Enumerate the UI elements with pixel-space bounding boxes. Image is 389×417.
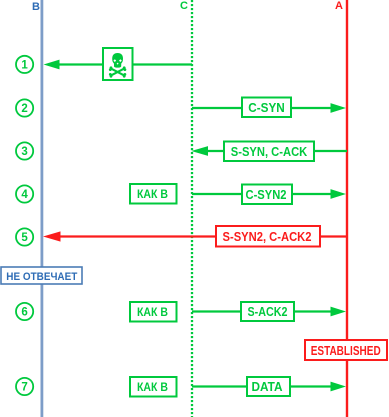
svg-text:КАК В: КАК В bbox=[137, 187, 168, 201]
step circle 4 bbox=[16, 185, 33, 202]
svg-text:2: 2 bbox=[21, 103, 27, 115]
svg-text:КАК В: КАК В bbox=[137, 305, 168, 319]
svg-text:A: A bbox=[335, 0, 343, 12]
svg-text:DATA: DATA bbox=[252, 379, 284, 394]
svg-text:7: 7 bbox=[21, 382, 27, 394]
svg-text:4: 4 bbox=[21, 189, 28, 201]
row 2 arrow C to A (green, rightward) bbox=[192, 103, 346, 113]
svg-text:C-SYN2: C-SYN2 bbox=[246, 187, 287, 202]
row 6 arrow C to A (green, rightward) bbox=[192, 307, 346, 317]
svg-text:S-SYN, C-ACK: S-SYN, C-ACK bbox=[231, 144, 308, 159]
label box S-ACK2 bbox=[241, 302, 294, 321]
step circle 7 bbox=[16, 378, 33, 395]
label box S-SYN2, C-ACK2 (red) bbox=[216, 226, 320, 247]
lifeline A (red vertical line) bbox=[346, 0, 348, 417]
lifeline C (green dotted vertical line) bbox=[191, 0, 193, 417]
skull nose bbox=[117, 63, 119, 65]
label box C-SYN2 bbox=[242, 185, 292, 205]
svg-text:6: 6 bbox=[21, 307, 27, 319]
svg-text:1: 1 bbox=[21, 60, 28, 72]
svg-text:КАК В: КАК В bbox=[137, 380, 168, 394]
row 5 arrow A to B (red, leftward) bbox=[43, 231, 347, 241]
skull box (attacker icon) bbox=[103, 48, 133, 80]
skull head bbox=[112, 53, 123, 68]
row 1 arrow C to B (green, leftward) bbox=[44, 60, 193, 70]
step circle 2 bbox=[16, 99, 33, 116]
label box C-SYN bbox=[242, 98, 291, 118]
svg-text:C: C bbox=[180, 0, 188, 12]
label box KAK B (row 7) bbox=[130, 377, 177, 397]
svg-text:S-ACK2: S-ACK2 bbox=[248, 304, 288, 319]
row 3 arrow A to C (green, leftward) bbox=[191, 146, 347, 156]
svg-text:S-SYN2, C-ACK2: S-SYN2, C-ACK2 bbox=[223, 229, 312, 244]
label box NE OTVECHAET (does not respond, blue) bbox=[1, 267, 82, 284]
svg-text:3: 3 bbox=[21, 146, 27, 158]
svg-text:5: 5 bbox=[21, 232, 28, 244]
step circle 3 bbox=[16, 142, 33, 159]
row 4 arrow C to A (green, rightward) bbox=[192, 189, 346, 199]
label box ESTABLISHED (red) bbox=[305, 340, 387, 360]
row 7 arrow C to A (green, rightward) bbox=[192, 382, 346, 392]
step circle 1 bbox=[16, 56, 33, 73]
crossbones bbox=[112, 69, 124, 75]
svg-text:ESTABLISHED: ESTABLISHED bbox=[311, 344, 381, 358]
svg-text:НЕ ОТВЕЧАЕТ: НЕ ОТВЕЧАЕТ bbox=[6, 271, 77, 283]
label box KAK B (row 6) bbox=[130, 302, 177, 322]
svg-text:C-SYN: C-SYN bbox=[248, 100, 285, 115]
label box KAK B (row 4) bbox=[130, 184, 177, 204]
label box DATA bbox=[247, 377, 290, 396]
step circle 6 bbox=[16, 303, 33, 320]
step circle 5 bbox=[16, 228, 33, 245]
skull eyes bbox=[113, 59, 116, 62]
lifeline B (blue vertical line) bbox=[41, 0, 44, 417]
svg-text:B: B bbox=[32, 1, 40, 13]
label box S-SYN, C-ACK bbox=[224, 142, 314, 162]
